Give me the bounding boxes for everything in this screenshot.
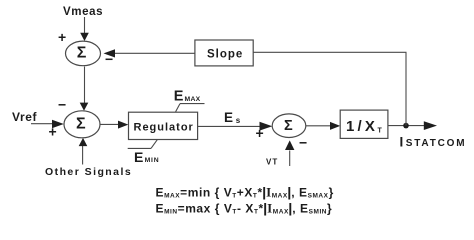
svg-text:I: I <box>400 135 404 150</box>
wire Vref to S2 <box>31 123 53 125</box>
wire S2 to Regulator <box>100 123 120 125</box>
wire S1 to summer S2 <box>84 67 86 104</box>
summer S3 <box>272 114 306 138</box>
arrowhead output Istatcom <box>424 121 437 130</box>
wire Regulator to summer S3, signal Es <box>198 125 260 127</box>
svg-text:+: + <box>49 124 57 140</box>
svg-text:E: E <box>134 149 143 165</box>
junction dot at output node <box>403 123 409 129</box>
leader line EMIN to Regulator <box>151 140 157 149</box>
svg-text:VT: VT <box>266 158 278 167</box>
arrowhead into S2 left <box>52 120 64 128</box>
svg-text:STATCOM: STATCOM <box>406 138 467 149</box>
overline of EMIN <box>128 147 151 149</box>
svg-text:Σ: Σ <box>77 45 87 62</box>
svg-text:Slope: Slope <box>207 49 243 61</box>
svg-text:MAX: MAX <box>185 96 201 103</box>
summer S1 <box>66 41 101 66</box>
wire S3 to 1/XT block <box>306 125 332 127</box>
wire feedback horizontal to Slope <box>253 51 406 53</box>
svg-text:E: E <box>174 88 184 104</box>
svg-text:E: E <box>224 110 233 125</box>
svg-text:Other Signals: Other Signals <box>45 166 132 178</box>
svg-text:Vmeas: Vmeas <box>63 6 103 18</box>
wire VT to S3 bottom <box>289 151 291 167</box>
svg-text:−: − <box>58 97 66 113</box>
svg-text:−: − <box>299 135 307 151</box>
wire feedback vertical from output node <box>405 52 407 125</box>
svg-text:EMIN=max { VT- XT*|IMAX|, ESMI: EMIN=max { VT- XT*|IMAX|, ESMIN} <box>156 201 333 216</box>
svg-text:EMAX=min { VT+XT*|IMAX|, ESMAX: EMAX=min { VT+XT*|IMAX|, ESMAX} <box>156 185 334 200</box>
svg-text:Vref: Vref <box>12 110 37 124</box>
svg-text:T: T <box>378 128 383 135</box>
wire Vmeas to summer S1 <box>84 17 86 34</box>
block 1/XT <box>340 110 388 138</box>
wire Other Signals to S2 bottom <box>82 146 84 165</box>
svg-text:+: + <box>256 125 264 141</box>
arrowhead into 1/XT block <box>330 122 340 130</box>
svg-text:1/X: 1/X <box>346 118 378 135</box>
arrowhead into S1 top <box>80 33 89 41</box>
block Slope <box>195 40 253 66</box>
wire Slope to S1 <box>114 52 195 54</box>
svg-text:Σ: Σ <box>76 116 86 133</box>
svg-text:+: + <box>58 29 66 45</box>
arrowhead into S2 bottom <box>79 138 88 146</box>
summer S2 <box>64 111 100 138</box>
arrowhead into Regulator <box>118 121 128 129</box>
arrowhead into S3 left <box>260 122 273 131</box>
arrowhead into S3 bottom <box>285 140 294 150</box>
wire 1/XT to output node <box>388 125 425 127</box>
arrowhead into S2 top <box>80 103 89 111</box>
svg-text:Σ: Σ <box>284 118 293 134</box>
leader line EMAX to Regulator <box>176 104 180 112</box>
svg-text:MIN: MIN <box>145 157 160 164</box>
arrowhead into S1 right <box>104 49 116 57</box>
svg-text:Regulator: Regulator <box>134 121 194 133</box>
block Regulator <box>129 112 198 139</box>
svg-text:s: s <box>236 116 241 125</box>
underline of EMAX <box>180 103 205 105</box>
